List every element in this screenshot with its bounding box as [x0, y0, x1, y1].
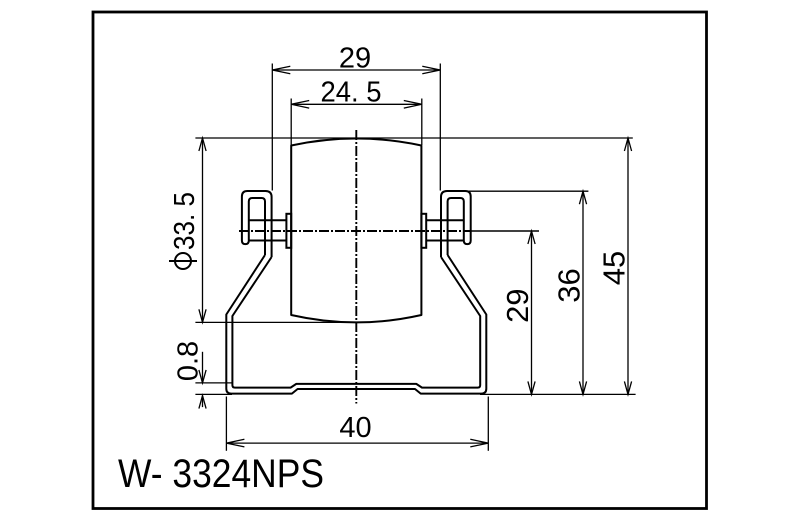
- dimension 36 right: [579, 191, 586, 394]
- svg-text:33. 5: 33. 5: [169, 192, 201, 250]
- svg-text:40: 40: [339, 412, 371, 444]
- svg-text:0.8: 0.8: [173, 341, 205, 381]
- right washer: [421, 214, 426, 248]
- extension line ground baseline: [195, 393, 635, 395]
- right axle hook: [441, 191, 471, 257]
- extension line hook top: [469, 190, 589, 192]
- roller body: [291, 139, 421, 323]
- dimension phi 33.5: [199, 138, 206, 322]
- left washer: [286, 214, 291, 248]
- svg-text:45: 45: [597, 251, 632, 285]
- rail inner surface: [232, 257, 480, 388]
- svg-text:36: 36: [552, 268, 587, 302]
- right axle pin: [426, 220, 464, 240]
- svg-text:29: 29: [500, 288, 535, 322]
- roller vertical centerline: [355, 130, 357, 404]
- dimension 29 top: [272, 64, 440, 191]
- left axle pin: [249, 220, 287, 240]
- dimension 40 bottom: [226, 397, 488, 451]
- svg-text:29: 29: [339, 43, 371, 75]
- dimension 0.8: [199, 352, 206, 409]
- dimension 24.5: [291, 99, 422, 146]
- extension line roller top: [195, 137, 632, 139]
- svg-text:W- 3324NPS: W- 3324NPS: [118, 452, 324, 496]
- extension line sheet inner bottom: [195, 382, 231, 384]
- left axle hook: [242, 191, 272, 257]
- extension line roller bottom: [195, 321, 350, 323]
- svg-text:24. 5: 24. 5: [321, 77, 382, 109]
- dimension 45 right: [624, 138, 631, 394]
- rail outer surface: [226, 255, 486, 394]
- axle centerline: [239, 230, 539, 232]
- dimension 29 right: [528, 231, 535, 394]
